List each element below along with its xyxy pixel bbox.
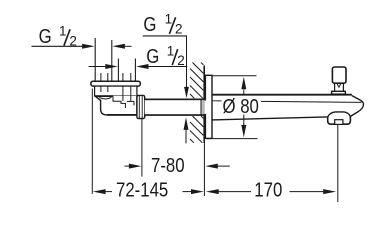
pipe 2 socket in body — [122, 86, 124, 101]
diameter 80 bottom extension line — [206, 138, 258, 140]
spout tip outline — [350, 96, 363, 117]
diameter 80 dimension line lower — [243, 115, 245, 126]
union flange — [91, 81, 140, 86]
svg-text:2: 2 — [177, 53, 185, 68]
wall plate (escutcheon) — [205, 75, 212, 138]
elbow bore stubs below flange — [100, 86, 102, 92]
connection pipe bottom edge — [145, 114, 206, 116]
dimension 72-145 line left — [105, 191, 112, 193]
spout outlet dome — [328, 112, 351, 117]
dimension 170 extension line right — [337, 125, 339, 203]
label G1/2 #2 pointer vertical line — [186, 36, 188, 88]
pipe bottom up arrow — [184, 117, 189, 129]
dimension 7-80 arrow right — [129, 164, 142, 169]
dimension 7-80 left tail — [125, 165, 132, 167]
dimension 7-80 extension line left — [141, 119, 143, 177]
connection pipe top edge — [145, 99, 205, 101]
svg-text:1: 1 — [59, 24, 67, 39]
label G1/2 #3 text — [146, 43, 185, 68]
pipe opening through wall — [202, 100, 207, 114]
union nut — [137, 95, 145, 118]
svg-text:G: G — [143, 13, 156, 36]
diverter knob collar — [332, 91, 346, 94]
label G1/2 #3 underline — [147, 66, 187, 68]
inlet pipe 1 right outer line — [111, 40, 113, 81]
diverter knob neck — [334, 83, 336, 91]
elbow internal stepped bore profile — [113, 96, 125, 108]
inlet pipe 2 inner bore lines — [122, 73, 124, 81]
wall hatching lower — [190, 116, 203, 143]
diameter 80 dimension line upper — [243, 90, 245, 96]
elbow body — [95, 96, 137, 115]
pipe bottom arrow tail — [185, 130, 187, 144]
svg-text:1: 1 — [167, 43, 175, 58]
dimension 170 line left — [219, 191, 252, 193]
svg-text:Ø 80: Ø 80 — [223, 94, 259, 117]
inlet pipe 1 left outer line — [94, 38, 96, 81]
inlet pipe 2 left outer line — [117, 59, 119, 82]
spout top edge — [212, 94, 352, 96]
label G1/2 #2 text (top center) — [143, 11, 182, 36]
label G1/2 #1 leader line — [32, 45, 85, 47]
aerator — [335, 120, 343, 125]
svg-text:G: G — [146, 45, 159, 68]
inlet pipe 2 bore continuation below flange — [122, 86, 124, 100]
union body cup — [95, 86, 137, 96]
svg-text:1: 1 — [165, 11, 173, 26]
dimension 2 arrow left — [136, 64, 149, 69]
dimension 1 arrow left — [112, 44, 125, 49]
wall extension line to dimensions — [203, 143, 205, 196]
spout bottom edge — [212, 117, 328, 120]
svg-text:170: 170 — [254, 178, 282, 201]
connection pipe interior — [145, 100, 205, 114]
dimension 72-145 extension line left — [91, 89, 93, 194]
inlet pipe 1 inner bore lines — [100, 73, 102, 81]
pipe end shading in wall — [202, 100, 205, 114]
connection pipe end cap — [200, 99, 202, 116]
dimension 72-145 line right — [183, 191, 192, 193]
dimension 7-80 arrow left — [205, 164, 218, 169]
spout seam line left segment — [212, 100, 222, 102]
dimension 170 arrow right — [323, 189, 336, 194]
dimension 2 arrow right — [105, 64, 118, 69]
connection pipe end shading — [202, 100, 205, 114]
svg-text:7-80: 7-80 — [151, 154, 185, 177]
inlet pipe 2 right outer line — [134, 59, 136, 82]
diameter 80 down arrow — [241, 125, 246, 137]
union nut ridges — [138, 96, 140, 118]
dimension 170 line right — [290, 191, 324, 193]
wall hatching upper — [190, 63, 203, 99]
label G1/2 #2 underline — [143, 35, 187, 37]
label G1/2 #2 down arrow at pipe top — [184, 87, 189, 98]
svg-text:2: 2 — [175, 22, 183, 37]
diverter knob neck notch — [337, 83, 341, 87]
spout outlet housing — [328, 116, 351, 124]
diverter knob body — [332, 67, 346, 83]
elbow internal dip curve — [99, 97, 111, 99]
spout seam line right segment — [261, 101, 362, 102]
dimension 72-145 arrow left — [93, 189, 106, 194]
svg-text:G: G — [39, 25, 52, 48]
dimension 170 arrow left — [206, 189, 219, 194]
dimension 7-80 right tail — [218, 165, 230, 167]
dimension 1 arrow right — [82, 44, 95, 49]
dimension 1 right tail — [125, 45, 132, 47]
wall line — [203, 66, 205, 144]
dimension 2 left tail — [89, 66, 108, 68]
svg-text:72-145: 72-145 — [116, 178, 168, 201]
dimension 72-145 arrow right — [191, 189, 204, 194]
diameter 80 up arrow — [241, 77, 246, 90]
label G1/2 #1 text — [39, 24, 77, 49]
union body cup bottom thick edge — [95, 95, 113, 97]
diameter 80 top extension line — [212, 75, 257, 77]
